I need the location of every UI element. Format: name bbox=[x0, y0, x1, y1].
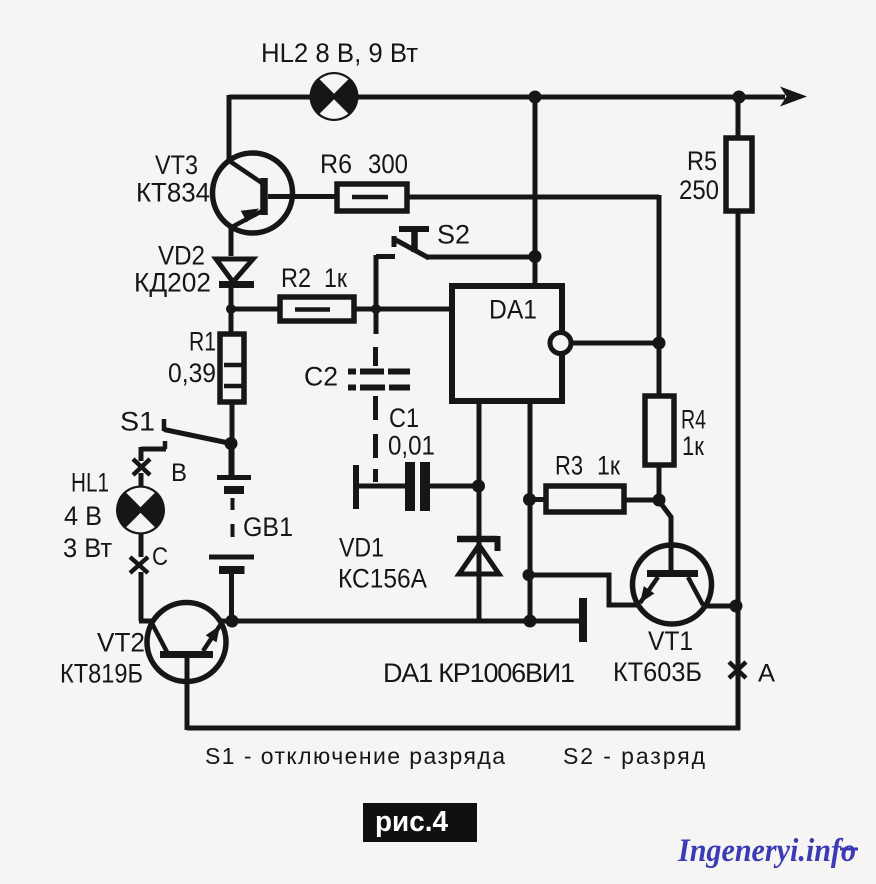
svg-text:VT3: VT3 bbox=[155, 150, 198, 180]
svg-text:R6: R6 bbox=[320, 149, 352, 179]
svg-text:DA1 КР1006ВИ1: DA1 КР1006ВИ1 bbox=[383, 658, 575, 688]
svg-text:C1: C1 bbox=[389, 403, 419, 433]
svg-text:КС156А: КС156А bbox=[338, 564, 427, 594]
svg-text:КТ603Б: КТ603Б bbox=[613, 657, 702, 687]
svg-text:S1: S1 bbox=[120, 407, 155, 437]
svg-text:КД202: КД202 bbox=[134, 268, 211, 298]
svg-text:HL1: HL1 bbox=[71, 468, 109, 498]
svg-text:R5: R5 bbox=[687, 146, 717, 176]
svg-text:R3: R3 bbox=[555, 451, 583, 481]
svg-text:Ingeneryi.info: Ingeneryi.info bbox=[677, 833, 856, 869]
svg-text:S1 - отключение разряда: S1 - отключение разряда bbox=[205, 743, 505, 769]
svg-text:300: 300 bbox=[368, 149, 408, 179]
svg-text:DA1: DA1 bbox=[489, 295, 537, 325]
svg-text:КТ834: КТ834 bbox=[136, 178, 210, 208]
svg-text:С: С bbox=[152, 543, 168, 571]
svg-text:R4: R4 bbox=[681, 405, 706, 435]
svg-text:VD2: VD2 bbox=[158, 241, 205, 271]
svg-text:0,01: 0,01 bbox=[388, 431, 435, 461]
svg-text:HL2 8 В, 9 Вт: HL2 8 В, 9 Вт bbox=[261, 38, 418, 68]
svg-text:GB1: GB1 bbox=[243, 512, 293, 542]
svg-text:КТ819Б: КТ819Б bbox=[60, 659, 143, 689]
svg-text:В: В bbox=[171, 459, 187, 487]
svg-text:4 В: 4 В bbox=[64, 501, 102, 531]
svg-text:VD1: VD1 bbox=[339, 533, 384, 563]
svg-text:250: 250 bbox=[679, 175, 719, 205]
svg-text:А: А bbox=[758, 660, 775, 688]
svg-text:R1: R1 bbox=[189, 327, 216, 357]
svg-text:рис.4: рис.4 bbox=[375, 806, 448, 838]
svg-text:3 Вт: 3 Вт bbox=[63, 533, 112, 563]
svg-text:1к: 1к bbox=[682, 431, 704, 461]
svg-text:R2: R2 bbox=[281, 263, 311, 293]
svg-text:VT1: VT1 bbox=[648, 626, 693, 656]
svg-text:S2: S2 bbox=[437, 220, 470, 250]
svg-text:1к: 1к bbox=[597, 451, 620, 481]
svg-text:1к: 1к bbox=[324, 263, 347, 293]
svg-text:0,39: 0,39 bbox=[168, 358, 216, 388]
svg-text:VT2: VT2 bbox=[97, 628, 145, 658]
svg-text:C2: C2 bbox=[304, 362, 338, 392]
